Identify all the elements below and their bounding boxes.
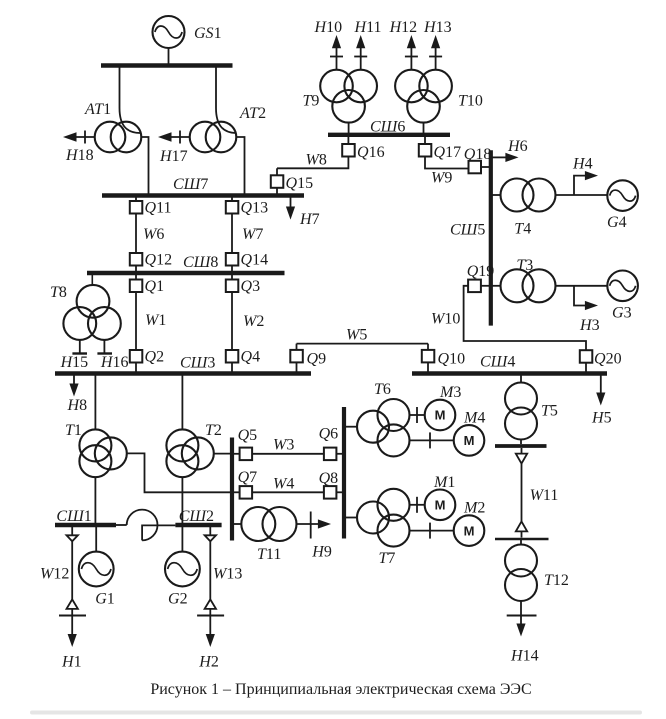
svg-text:T9: T9	[303, 93, 320, 110]
line W4	[252, 491, 324, 493]
svg-text:СШ1: СШ1	[56, 508, 91, 525]
motor M3	[425, 400, 456, 431]
svg-text:Q11: Q11	[145, 200, 172, 217]
transformer T6 (three-winding)	[357, 399, 410, 456]
breaker Q20	[580, 350, 593, 371]
autotransformer AT2	[190, 122, 237, 153]
breaker Q3	[226, 275, 239, 292]
wire bus drop to AT1	[120, 67, 141, 133]
transformer T9 (three-winding)	[320, 70, 377, 123]
svg-text:Q3: Q3	[241, 278, 261, 295]
bus CSH4	[412, 371, 607, 375]
svg-text:M: M	[435, 498, 446, 513]
generator G1	[79, 552, 114, 587]
svg-text:W1: W1	[145, 312, 166, 329]
svg-text:H5: H5	[591, 410, 612, 427]
svg-text:M1: M1	[433, 474, 455, 491]
wire T4 to G4	[556, 194, 608, 196]
autotransformer AT1	[95, 122, 142, 153]
svg-text:H12: H12	[389, 19, 418, 36]
svg-text:H1: H1	[61, 654, 82, 671]
wire CSH2 to G2	[181, 527, 183, 552]
bar above T12	[495, 538, 549, 541]
wire CSH5 to T4	[493, 194, 501, 196]
wire bus B to T6	[346, 426, 358, 428]
line W3	[252, 453, 324, 455]
svg-text:T12: T12	[544, 572, 569, 589]
svg-text:Q16: Q16	[357, 144, 385, 161]
svg-text:Q5: Q5	[238, 427, 258, 444]
svg-text:Q15: Q15	[286, 175, 314, 192]
reactor LR (between CSH1 and CSH2)	[127, 510, 176, 541]
load arrow H13	[429, 35, 442, 70]
svg-text:Q4: Q4	[241, 349, 261, 366]
wire bus A to T11	[234, 523, 242, 525]
load arrow H12	[405, 35, 418, 70]
breaker Q10	[422, 344, 435, 372]
svg-text:Q9: Q9	[307, 351, 327, 368]
svg-text:W10: W10	[431, 311, 460, 328]
wire CSH5 to T3	[493, 285, 501, 287]
load arrow H18	[63, 131, 95, 144]
load arrow H8	[69, 376, 78, 397]
wire T7 to M1	[410, 497, 425, 513]
breaker Q2	[130, 350, 143, 372]
breaker Q1	[130, 275, 143, 292]
breaker Q19	[468, 280, 489, 293]
svg-text:H15: H15	[60, 354, 89, 371]
svg-text:H7: H7	[299, 211, 320, 228]
svg-text:G4: G4	[607, 214, 627, 231]
breaker Q12	[130, 253, 143, 271]
svg-text:H11: H11	[354, 19, 382, 36]
top bus (GS1 bus)	[101, 63, 233, 67]
transformer T7 (three-winding)	[357, 489, 410, 547]
wire bus B to T7	[346, 517, 358, 519]
svg-text:СШ8: СШ8	[183, 254, 218, 271]
svg-text:H3: H3	[579, 317, 600, 334]
wire AT2 to bus CSH7	[236, 137, 244, 194]
svg-text:W9: W9	[431, 170, 452, 187]
load arrow H3	[574, 286, 598, 310]
load terminal H16	[97, 340, 112, 354]
wire T10 to bus CSH6	[423, 123, 425, 133]
bus CSH8	[87, 271, 285, 275]
svg-text:W7: W7	[242, 226, 263, 243]
svg-text:G1: G1	[95, 591, 115, 608]
wire T7 to M2	[410, 523, 454, 539]
svg-text:M: M	[464, 433, 475, 448]
load arrow H9	[297, 512, 331, 539]
svg-text:G2: G2	[168, 591, 188, 608]
wire bus drop to AT2	[216, 67, 237, 133]
svg-text:T5: T5	[541, 403, 558, 420]
svg-text:H10: H10	[314, 19, 343, 36]
bus CSH6	[328, 133, 450, 137]
svg-text:Q18: Q18	[464, 146, 492, 163]
breaker Q14	[226, 253, 239, 271]
bus A (Q5/Q7/T11 sectional bus)	[230, 438, 234, 541]
svg-text:W12: W12	[40, 566, 69, 583]
bus CSH1	[55, 523, 116, 527]
svg-text:GS1: GS1	[194, 25, 222, 42]
svg-text:M3: M3	[439, 384, 461, 401]
svg-text:M: M	[464, 523, 475, 538]
svg-text:H9: H9	[311, 544, 332, 561]
breaker Q17	[419, 137, 432, 157]
generator G2	[165, 552, 200, 587]
svg-text:Q1: Q1	[145, 278, 165, 295]
svg-text:W11: W11	[530, 487, 559, 504]
svg-text:Q7: Q7	[238, 469, 258, 486]
load arrow H10	[330, 35, 343, 70]
svg-text:T6: T6	[374, 381, 391, 398]
svg-text:H13: H13	[423, 19, 452, 36]
svg-text:СШ2: СШ2	[179, 508, 214, 525]
svg-text:AT2: AT2	[239, 105, 266, 122]
svg-text:Q14: Q14	[241, 252, 269, 269]
transformer T10 (three-winding)	[395, 70, 452, 123]
svg-text:H14: H14	[510, 648, 539, 665]
line W1	[135, 292, 137, 350]
svg-text:СШ6: СШ6	[370, 119, 405, 136]
svg-text:H6: H6	[507, 138, 528, 155]
load terminal H15	[72, 340, 87, 354]
breaker Q13	[226, 198, 239, 214]
svg-text:СШ5: СШ5	[450, 222, 485, 239]
motor M2	[454, 515, 485, 546]
load arrow H7	[286, 198, 295, 220]
load arrow H4	[574, 171, 598, 195]
motor M1	[425, 490, 456, 521]
wire T6 to M3	[410, 407, 425, 423]
bar below T5	[495, 444, 547, 448]
svg-text:W4: W4	[273, 476, 294, 493]
line W8	[277, 157, 348, 169]
breaker Q5	[234, 448, 252, 461]
generator G4	[607, 180, 638, 211]
svg-text:T7: T7	[379, 550, 396, 567]
wire CSH1 to G1	[95, 527, 97, 552]
svg-text:H4: H4	[572, 156, 593, 173]
wire T6 to M4	[410, 432, 454, 448]
svg-text:Q10: Q10	[438, 351, 466, 368]
svg-text:T8: T8	[50, 284, 67, 301]
transformer T1 (three-winding)	[79, 429, 126, 477]
line W6	[135, 214, 137, 254]
svg-text:T11: T11	[257, 546, 281, 563]
wire T1 side winding to W4 row	[127, 453, 230, 492]
transformer T11	[241, 507, 296, 541]
wire T2 to bus CSH2	[181, 477, 183, 523]
wire AT1 to bus CSH7	[141, 137, 148, 194]
wire T2 side winding to W3 row	[214, 453, 230, 455]
svg-text:W13: W13	[213, 566, 242, 583]
svg-text:W8: W8	[306, 152, 327, 169]
svg-text:M: M	[435, 408, 446, 423]
svg-text:W5: W5	[346, 327, 367, 344]
svg-text:Q20: Q20	[594, 351, 622, 368]
load arrow H1	[59, 609, 86, 647]
bottom faded page strip	[30, 711, 642, 715]
svg-text:Рисунок 1 – Принципиальная эле: Рисунок 1 – Принципиальная электрическая…	[150, 681, 531, 698]
generator GS1	[153, 16, 185, 48]
wire CSH4 to T5	[520, 376, 522, 383]
breaker Q16	[342, 137, 355, 157]
cable line W13	[205, 527, 216, 609]
transformer T3	[501, 269, 556, 302]
wire CSH3 to T1	[94, 376, 96, 430]
motor M4	[454, 425, 485, 456]
svg-text:Q17: Q17	[434, 144, 462, 161]
transformer T4	[501, 179, 556, 212]
wire GS1 to top bus	[168, 48, 170, 64]
svg-text:T3: T3	[516, 257, 533, 274]
svg-text:AT1: AT1	[84, 101, 111, 118]
load arrow H6	[493, 153, 519, 162]
bus B (T6/T7 motor bus)	[342, 407, 346, 539]
svg-text:СШ4: СШ4	[480, 354, 515, 371]
breaker Q6	[324, 448, 342, 461]
svg-text:Q8: Q8	[319, 470, 339, 487]
breaker Q8	[324, 486, 342, 499]
generator G3	[607, 271, 638, 302]
load arrow H17	[158, 131, 190, 144]
svg-text:H2: H2	[198, 654, 219, 671]
breaker Q9	[290, 344, 303, 372]
line W2	[231, 292, 233, 350]
svg-text:T4: T4	[514, 221, 531, 238]
svg-text:H17: H17	[159, 148, 188, 165]
breaker Q15	[271, 168, 284, 193]
wire T3 to G3	[556, 285, 608, 287]
transformer T8 (three-winding)	[63, 275, 120, 340]
svg-text:T1: T1	[65, 422, 82, 439]
load arrow H14	[507, 601, 537, 637]
line W7	[231, 214, 233, 254]
svg-text:T10: T10	[458, 93, 483, 110]
wire CSH1 to reactor	[116, 524, 127, 526]
load arrow H5	[596, 376, 605, 406]
transformer T12	[505, 545, 537, 602]
bus CSH2	[175, 523, 221, 527]
cable line W11	[516, 448, 527, 538]
line W10	[464, 286, 586, 350]
svg-text:W2: W2	[243, 313, 264, 330]
cable line W12	[67, 527, 78, 609]
svg-text:W3: W3	[273, 437, 294, 454]
svg-text:Q2: Q2	[145, 349, 165, 366]
transformer T2 (three-winding)	[166, 429, 213, 477]
line W5	[297, 343, 429, 345]
svg-text:СШ7: СШ7	[173, 176, 208, 193]
wire T1 to bus CSH1	[94, 477, 96, 523]
wire CSH3 to T2	[181, 376, 183, 430]
breaker Q7	[234, 486, 252, 499]
svg-text:T2: T2	[205, 422, 222, 439]
svg-text:H16: H16	[100, 354, 129, 371]
load arrow H2	[197, 609, 224, 647]
svg-text:H8: H8	[67, 397, 88, 414]
bus CSH7	[102, 193, 304, 197]
svg-text:G3: G3	[612, 305, 632, 322]
load arrow H11	[354, 35, 367, 70]
breaker Q11	[130, 198, 143, 214]
bus CSH5 (vertical)	[489, 150, 493, 325]
breaker Q4	[226, 350, 239, 372]
svg-text:M2: M2	[463, 500, 485, 517]
wire bar to T12	[520, 540, 522, 545]
svg-text:Q19: Q19	[467, 263, 495, 280]
svg-text:СШ3: СШ3	[180, 355, 215, 372]
bus CSH3	[55, 371, 311, 375]
wire T9 to bus CSH6	[348, 123, 350, 133]
svg-text:H18: H18	[65, 147, 94, 164]
svg-text:Q6: Q6	[319, 426, 339, 443]
wire T5 to bar	[520, 440, 522, 445]
transformer T5	[505, 383, 537, 440]
svg-text:Q13: Q13	[241, 200, 269, 217]
svg-text:W6: W6	[143, 226, 164, 243]
svg-text:M4: M4	[463, 410, 485, 427]
breaker Q18	[469, 161, 490, 174]
svg-text:Q12: Q12	[145, 252, 173, 269]
line W9	[425, 157, 469, 169]
